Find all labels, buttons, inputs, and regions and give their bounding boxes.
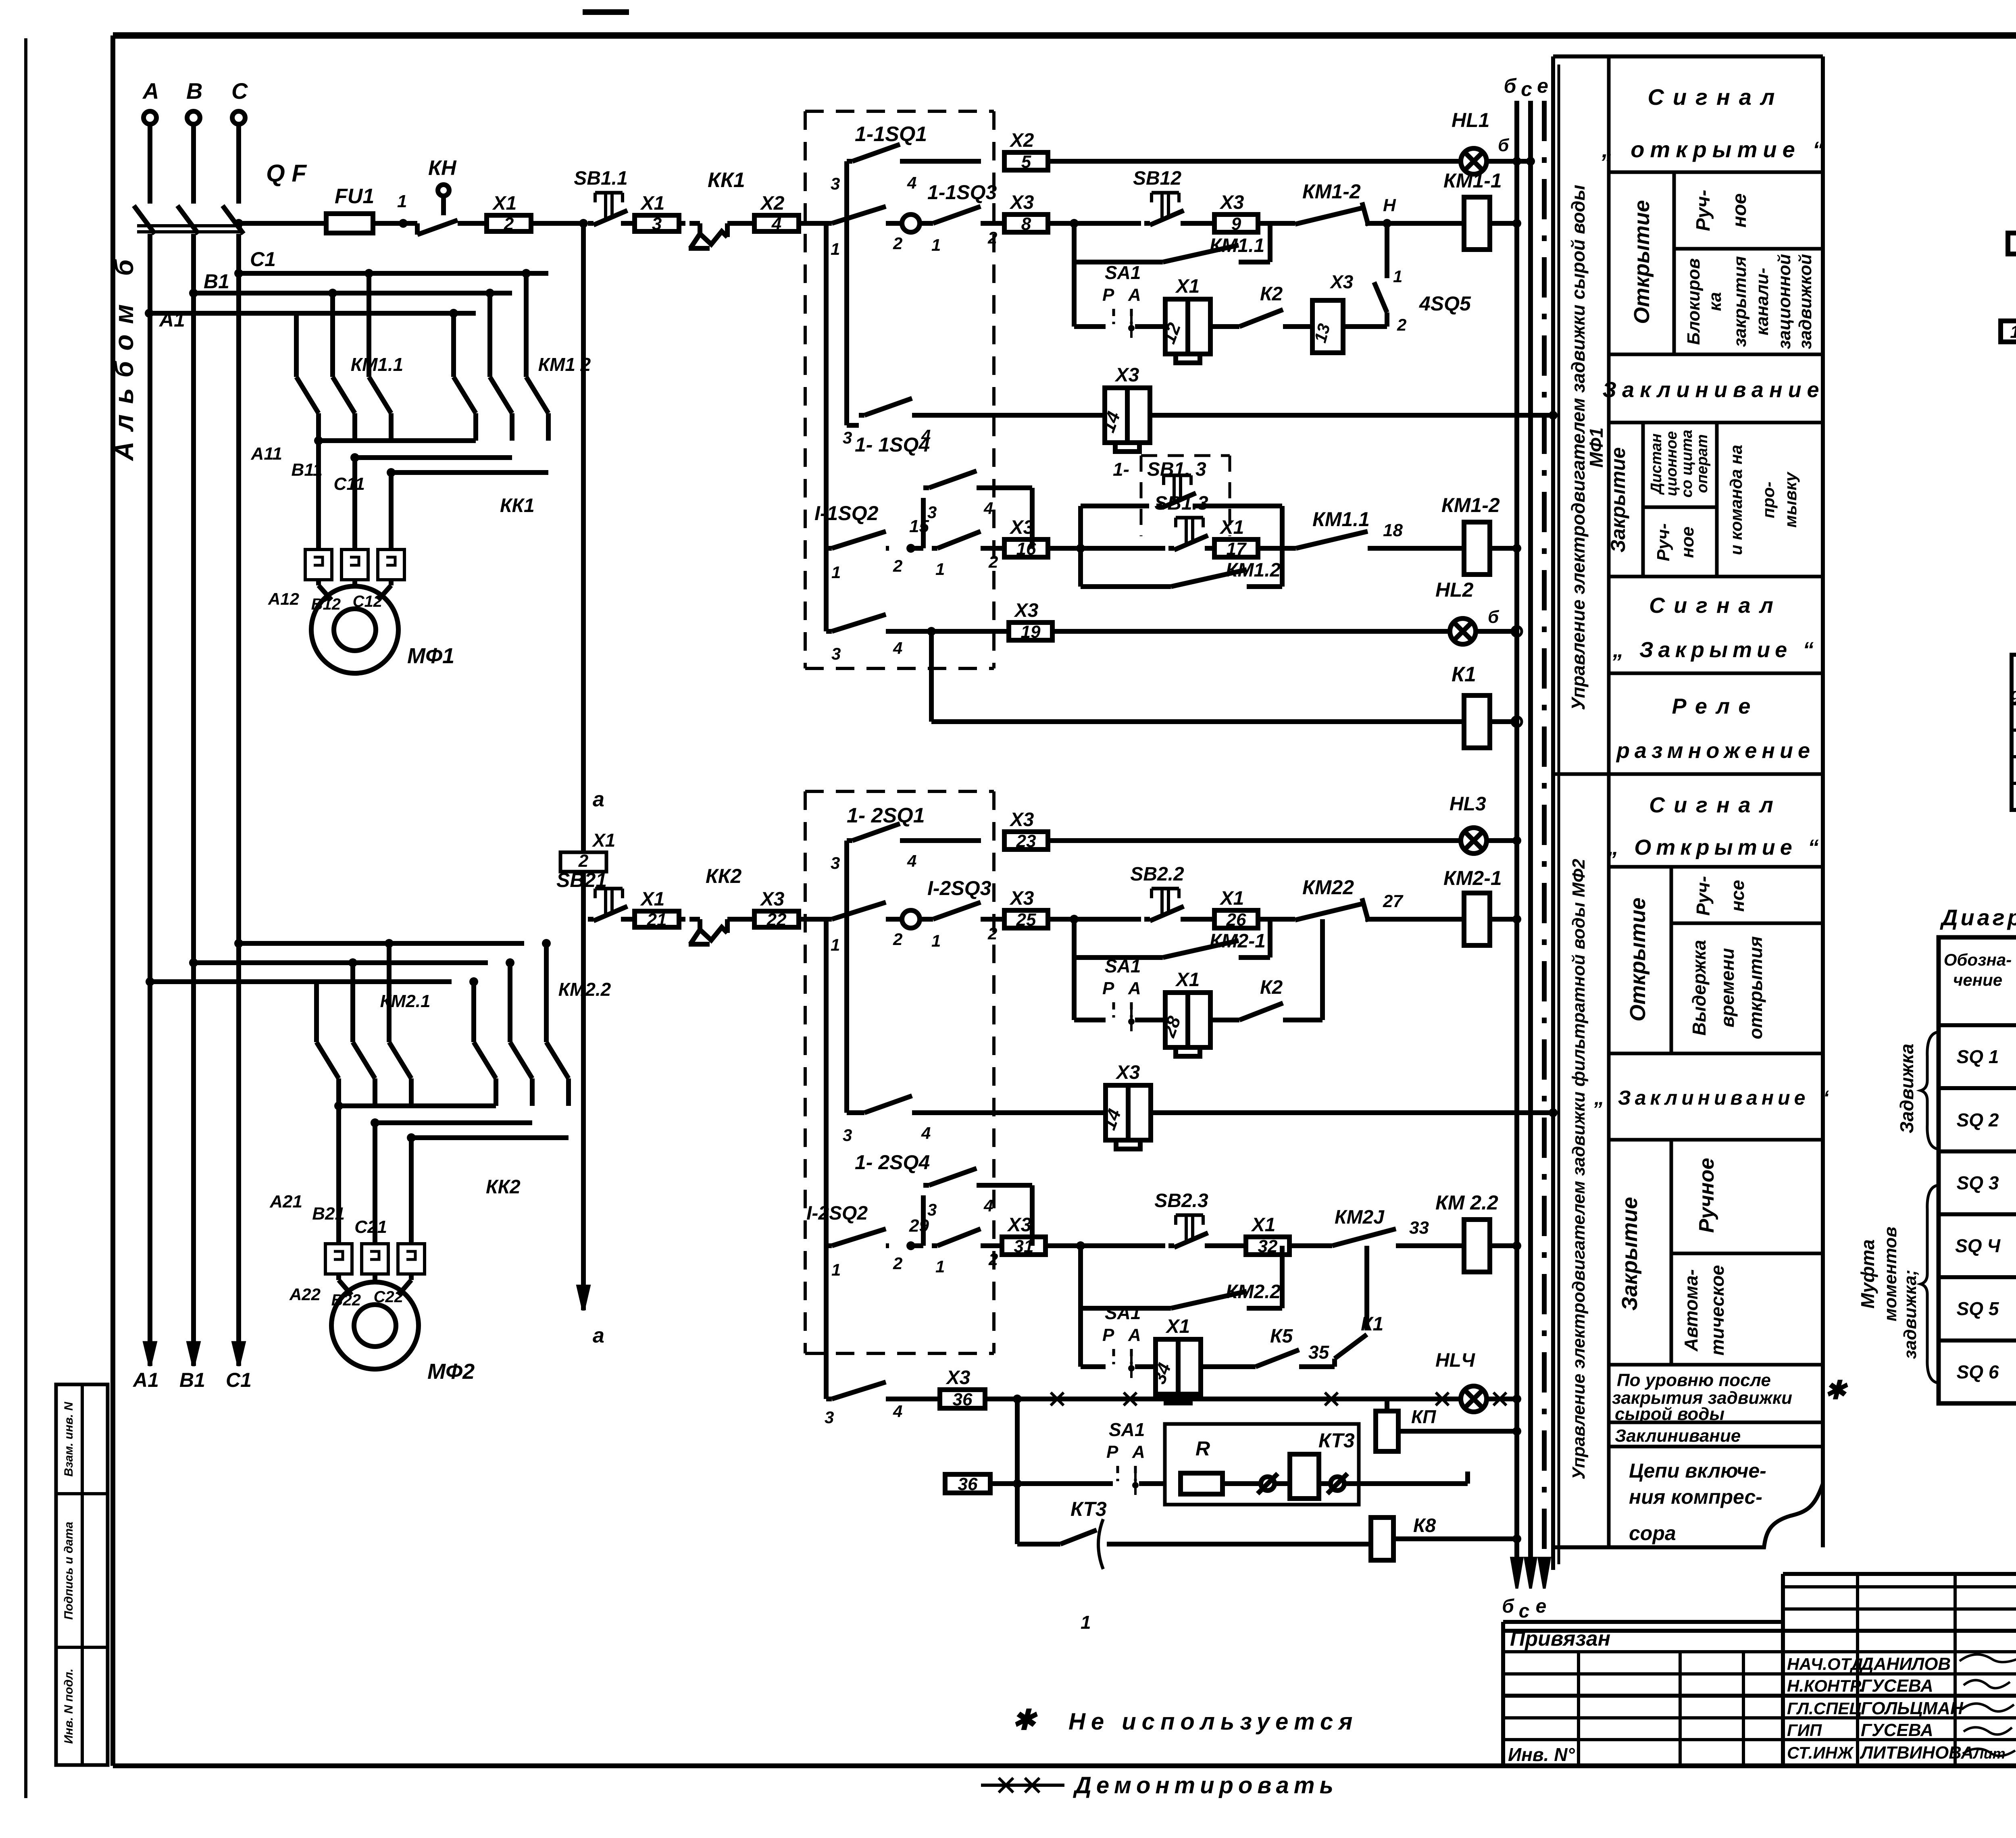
svg-text:1: 1 [831,1260,841,1279]
svg-text:SB1.3: SB1.3 [1154,493,1208,514]
node under X3 36 [1013,1395,1022,1403]
output box X1 28 [1165,993,1210,1047]
svg-text:КМ2J: КМ2J [1335,1207,1385,1228]
terminal X3 36 [940,1390,985,1408]
svg-text:КМ1.1: КМ1.1 [1312,508,1370,531]
svg-text:Сигнал: Сигнал [1649,593,1782,618]
wire 94-КН-95 [2008,233,2016,254]
svg-text:Х3: Х3 [1009,809,1034,831]
pushbutton SB1.3 main [1081,546,1165,551]
bypass contact KM1.1 [1072,223,1077,262]
svg-text:б: б [1498,135,1510,155]
terminal X1 21 [635,911,679,927]
svg-text:А22: А22 [289,1285,321,1304]
svg-text:2: 2 [893,556,902,575]
svg-text:К5: К5 [1270,1326,1293,1347]
svg-text:15: 15 [909,516,929,536]
svg-text:4: 4 [983,1196,993,1215]
pushbutton SB2.3 [1168,1243,1174,1248]
svg-text:и команда на: и команда на [1727,445,1745,555]
svg-text:1: 1 [931,235,941,254]
function table outer border [1551,56,1555,1570]
rect enclosure R KT3 [1165,1424,1359,1505]
svg-text:Руч-: Руч- [1654,523,1673,561]
svg-text:2: 2 [988,1250,998,1269]
svg-text:КМ2-1: КМ2-1 [1210,930,1266,952]
svg-text:3: 3 [927,1200,937,1219]
svg-text:3: 3 [927,503,937,522]
svg-text:б: б [1488,607,1500,627]
row Открытие/Ручное/Выдержка МФ2 [1609,1052,1823,1055]
svg-text:Сигнал: Сигнал [1647,84,1783,110]
svg-text:„ открытие “: „ открытие “ [1602,137,1830,162]
svg-text:Открытие: Открытие [1630,200,1654,324]
pushbutton SB1.2 [1144,221,1150,226]
svg-text:В1: В1 [204,270,229,293]
svg-text:про-: про- [1759,482,1778,518]
motor МФ1 [319,585,331,600]
svg-text:б: б [1504,75,1517,97]
svg-text:HLЧ: HLЧ [1435,1350,1475,1371]
terminal X1 3 [635,215,679,231]
svg-text:задвижкой: задвижкой [1795,254,1815,349]
output box X1 34 [1156,1339,1201,1394]
svg-text:Х1: Х1 [640,193,665,214]
svg-text:Реле: Реле [1672,694,1760,718]
row Сигнал Открытие МФ2 [1609,865,1823,869]
svg-text:Открытие: Открытие [1626,897,1650,1022]
svg-text:Дистан: Дистан [1648,433,1665,495]
timed contact KT3 bottom [1015,1484,1020,1544]
bypass contact KM2-1 [1072,919,1077,958]
svg-text:2: 2 [893,1254,902,1273]
svg-text:Руч-: Руч- [1693,190,1714,231]
svg-text:P: P [1102,978,1114,998]
svg-text:A: A [1128,285,1141,305]
terminal X3 8 [1004,214,1048,232]
svg-text:4: 4 [907,173,916,192]
svg-text:1: 1 [935,1257,945,1276]
svg-text:3: 3 [831,644,841,663]
limit switch 1-2SQ1 contact 3-4 branch [844,841,849,915]
bypass contact KM2.2 [1078,1246,1083,1308]
svg-text:Взам. инв. N: Взам. инв. N [62,1401,75,1477]
svg-text:НАЧ.ОТД: НАЧ.ОТД [1787,1655,1863,1674]
svg-text:Х1: Х1 [1165,1316,1190,1337]
svg-text:29: 29 [909,1216,929,1236]
svg-text:36: 36 [958,1474,978,1494]
slash circle 1 [1261,1477,1275,1490]
svg-text:A: A [1128,978,1141,998]
left margin stamp [56,1384,108,1765]
svg-text:КТ3: КТ3 [1318,1429,1355,1452]
svg-text:31: 31 [1014,1236,1034,1256]
svg-text:Альбом б: Альбом б [109,249,139,461]
svg-text:Х3: Х3 [946,1367,971,1388]
svg-text:SQ 1: SQ 1 [1957,1046,1999,1067]
node circle after SQ1 [889,221,902,226]
row Заклинивание МФ1 [1609,421,1823,425]
svg-text:✱: ✱ [1012,1704,1038,1736]
output box X1 12 [1165,299,1210,354]
svg-text:ка: ка [1705,292,1725,311]
rung HL2 [824,548,829,631]
svg-text:Выдержка: Выдержка [1689,940,1710,1035]
terminal X1 26 [1214,910,1258,928]
limit switch 1-1SQ1 contact 1-2 [824,223,829,234]
svg-text:Автома-: Автома- [1681,1269,1702,1352]
limit switch 1-2SQ4 bridge [911,1243,923,1248]
svg-text:Муфта: Муфта [1857,1239,1878,1309]
svg-text:МФ1: МФ1 [407,644,454,668]
svg-text:2: 2 [988,552,998,571]
svg-text:3: 3 [843,1126,852,1145]
terminal X2 4 [754,215,799,231]
junction [1070,219,1079,228]
svg-text:ния компрес-: ния компрес- [1629,1486,1762,1508]
svg-text:35: 35 [1308,1342,1330,1363]
limit switch 1-1SQ1 contact 3-4 branch up [844,161,849,219]
svg-text:С21: С21 [354,1217,387,1237]
svg-text:С11: С11 [334,474,365,494]
node feed down to МФ2 [579,219,588,228]
svg-text:е: е [1537,75,1548,97]
svg-text:3: 3 [831,853,840,872]
limit switch 4SQ5 vertical [1343,324,1387,329]
svg-text:а: а [593,1324,604,1347]
svg-text:SB12: SB12 [1133,168,1181,189]
terminal X3 14 second [1106,1085,1151,1140]
svg-text:канали-: канали- [1752,268,1772,335]
closing rung МФ1 [824,234,829,548]
note Демонтировать [981,1784,1064,1787]
svg-text:Х3: Х3 [1009,192,1034,213]
terminal X1 2 [487,215,531,231]
svg-text:КМ1-2: КМ1-2 [1441,494,1500,516]
limit switch 1-2SQ1 contact 1-2 [824,919,829,930]
svg-text:тическое: тическое [1707,1265,1728,1356]
svg-text:Х1: Х1 [1219,517,1244,538]
svg-text:Х1: Х1 [1219,888,1244,909]
svg-text:1- 2SQ4: 1- 2SQ4 [855,1151,930,1174]
svg-text:9: 9 [1231,214,1241,234]
svg-text:КМ 2.2: КМ 2.2 [1435,1191,1498,1214]
svg-text:Х3: Х3 [1007,1214,1032,1236]
svg-text:Инв. N подл.: Инв. N подл. [62,1669,75,1744]
svg-text:Не используется: Не используется [1068,1709,1358,1735]
svg-text:В1: В1 [179,1369,205,1391]
svg-text:Руч-: Руч- [1693,876,1714,916]
svg-text:фильтров: фильтров [2011,685,2016,703]
relay K8 [1371,1517,1393,1560]
wire 104-3SQ6-107 [2001,321,2016,342]
svg-text:Х1: Х1 [591,830,615,851]
node circle after 2SQ1 [889,917,902,922]
svg-text:1: 1 [831,935,840,954]
svg-text:36: 36 [953,1390,973,1409]
svg-text:3: 3 [843,428,852,447]
svg-text:4SQ5: 4SQ5 [1419,292,1471,315]
svg-text:КМ1.1: КМ1.1 [351,354,404,375]
svg-text:К8: К8 [1413,1515,1436,1536]
svg-text:4: 4 [893,639,902,658]
svg-text:21: 21 [647,910,667,930]
svg-text:А21: А21 [269,1192,302,1211]
svg-text:Х1: Х1 [1175,969,1200,991]
svg-text:Демонтировать: Демонтировать [1073,1772,1338,1798]
svg-text:2: 2 [1397,315,1406,334]
svg-text:HL2: HL2 [1435,579,1474,601]
bus line б [1514,101,1519,1564]
svg-text:КМ1-1: КМ1-1 [1443,169,1502,192]
svg-text:23: 23 [1016,831,1036,851]
svg-text:1- 2SQ1: 1- 2SQ1 [847,804,925,827]
svg-text:SQ 3: SQ 3 [1957,1172,1999,1193]
svg-text:Ручное: Ручное [1695,1158,1718,1233]
svg-text:Х3: Х3 [1115,1062,1140,1083]
svg-text:е: е [1536,1596,1547,1617]
svg-text:Х3: Х3 [1329,271,1354,292]
svg-text:Х1: Х1 [1175,276,1200,297]
svg-text:Х3: Х3 [1009,888,1034,909]
svg-text:Н: Н [1383,196,1396,215]
svg-text:Х2: Х2 [760,193,785,214]
svg-text:А12: А12 [268,589,299,608]
svg-text:1-1SQ3: 1-1SQ3 [927,181,997,204]
svg-text:Q F: Q F [266,160,307,187]
svg-text:ГЛ.СПЕЦ: ГЛ.СПЕЦ [1787,1699,1862,1718]
svg-text:I-2SQ2: I-2SQ2 [806,1203,868,1224]
wires down to KK2 [336,1106,341,1244]
svg-text:P: P [1106,1442,1118,1462]
terminal X3 9 [1214,214,1258,232]
svg-text:Управление электродвигателем з: Управление электродвигателем задвижки фи… [1569,859,1589,1480]
svg-text:2: 2 [578,851,589,871]
svg-text:2: 2 [504,214,514,234]
node 1 [399,219,408,228]
signature scribbles [1960,1651,2016,1662]
row Закрытие/Ручное/Автоматическое МФ2 [1609,1363,1823,1367]
svg-text:4: 4 [771,214,781,234]
svg-text:17: 17 [1227,539,1247,559]
svg-text:26: 26 [1226,910,1246,930]
title block main [1501,1622,1505,1766]
svg-text:с: с [1519,1601,1530,1622]
svg-text:1- 1SQ4: 1- 1SQ4 [855,433,930,456]
svg-text:„ Открытие “: „ Открытие “ [1607,835,1824,860]
svg-text:КН: КН [428,156,457,180]
rung HL4 [824,1246,829,1399]
svg-text:1: 1 [1081,1612,1091,1633]
svg-text:18: 18 [1383,520,1403,540]
limit switch 1-1SQ2 contact [826,546,832,551]
svg-text:104: 104 [2010,322,2016,342]
svg-text:I-1SQ2: I-1SQ2 [814,502,879,525]
pushbutton SB2.2 [1144,917,1150,922]
svg-text:б: б [1502,1596,1514,1617]
svg-text:4: 4 [921,1124,931,1143]
svg-text:а: а [593,788,604,811]
selector SA1 PA row МФ1 [1072,262,1077,327]
svg-text:времени: времени [1717,948,1738,1028]
rung Заклинивание МФ1 X3 14 [844,173,849,425]
svg-text:Х1: Х1 [492,193,517,214]
svg-text:ное: ное [1729,193,1750,227]
svg-text:размножение: размножение [1616,739,1815,763]
terminal X3 22 [754,911,799,927]
svg-text:Х3: Х3 [1219,192,1244,213]
wire taps to МФ2 contactors [234,939,243,948]
svg-text:моментов: моментов [1881,1226,1900,1321]
svg-text:Х3: Х3 [1114,364,1139,386]
terminal X1 32 [1246,1237,1289,1255]
svg-text:P: P [1102,1325,1114,1345]
motor МФ2 [339,1280,352,1295]
svg-text:К1: К1 [1361,1313,1383,1335]
svg-text:1: 1 [831,239,840,258]
svg-text:5: 5 [1021,152,1031,172]
svg-text:„ Заклинивание “: „ Заклинивание “ [1594,1087,1833,1109]
terminal X3 31 [1002,1237,1045,1255]
svg-text:С1: С1 [226,1369,252,1391]
svg-text:3: 3 [831,174,840,193]
terminal X2 5 [1004,152,1048,170]
svg-text:R: R [1195,1437,1210,1460]
svg-text:с: с [1521,78,1532,100]
function table label column МФ2 [1553,772,1609,776]
contact 1-2 on closing rung [932,546,937,551]
svg-text:Закрытие: Закрытие [1607,447,1629,552]
svg-text:4: 4 [983,499,993,518]
terminal X3 16 [1004,539,1048,557]
svg-text:ное: ное [1678,527,1697,558]
svg-text:✱: ✱ [1824,1376,1848,1405]
svg-text:ГОЛЬЦМАН: ГОЛЬЦМАН [1861,1699,1964,1718]
bus line с [1528,101,1533,1564]
dashed box SB1.3 upper [1141,454,1230,457]
title block rows [1783,1585,2016,1588]
circuit breaker QF [134,206,155,234]
svg-text:2: 2 [987,924,997,943]
svg-text:КМ1.1: КМ1.1 [1210,235,1264,256]
svg-text:8: 8 [1021,214,1031,234]
svg-text:Х3: Х3 [760,889,785,910]
relay КП [1385,1399,1389,1411]
selector SA1 K5 row [1078,1308,1083,1367]
row Открытие/Ручное/Блокировка МФ1 [1609,353,1823,356]
wire main feed from QF to control [234,219,243,228]
svg-text:4: 4 [907,851,916,870]
svg-text:ДАНИЛОВ: ДАНИЛОВ [1859,1654,1951,1674]
svg-text:Заклинивание: Заклинивание [1615,1426,1741,1446]
svg-text:SA1: SA1 [1109,1419,1145,1440]
svg-text:К2: К2 [1260,977,1283,998]
svg-text:Заклинивание: Заклинивание [1602,378,1824,402]
svg-text:3: 3 [652,214,662,234]
svg-text:Х2: Х2 [1009,130,1034,151]
svg-text:3: 3 [825,1408,834,1427]
row Сигнал открытие МФ1 [1609,55,1823,58]
selector SA1 PA row МФ2 [1072,958,1077,1020]
svg-text:16: 16 [1016,539,1036,559]
crossover wires bank2 to bank1 МФ2 [339,1103,496,1108]
svg-text:HL3: HL3 [1450,793,1486,815]
terminal X3 23 [1004,832,1048,849]
svg-text:A: A [1128,1325,1141,1345]
svg-text:А: А [142,78,159,104]
svg-text:1: 1 [831,563,841,582]
svg-text:SB2.2: SB2.2 [1130,864,1184,885]
svg-text:В: В [186,78,202,104]
svg-text:SA1: SA1 [1105,955,1141,976]
svg-text:Сигнал: Сигнал [1649,793,1782,817]
svg-text:1: 1 [935,560,945,579]
svg-text:SA1: SA1 [1105,262,1141,283]
limit switch 1-1SQ4 bridge [911,546,923,551]
svg-text:SQ Ч: SQ Ч [1955,1235,2001,1256]
dashed enclosure 1-2SQ box [805,790,994,793]
svg-text:КМ1-2: КМ1-2 [1302,180,1361,203]
wire tap С1 [234,269,243,278]
svg-text:Задвижка: Задвижка [1896,1044,1917,1134]
svg-text:Х1: Х1 [640,889,665,910]
svg-text:нсе: нсе [1727,880,1748,912]
svg-text:Х3: Х3 [1014,600,1039,621]
svg-text:закрытия: закрытия [1730,256,1750,347]
svg-text:мывку: мывку [1781,471,1800,528]
dashed enclosure 1-1SQ box [805,110,994,113]
bus line е (dashed) [1542,101,1547,1564]
svg-text:задвижка;: задвижка; [1900,1270,1920,1359]
svg-text:ционное: ционное [1663,431,1680,496]
svg-text:1: 1 [1393,267,1402,286]
svg-text:С1: С1 [250,248,276,271]
svg-text:P: P [1102,285,1114,305]
svg-text:A: A [1132,1442,1145,1462]
svg-text:КК1: КК1 [708,169,745,192]
svg-text:1: 1 [397,192,407,211]
title block verticals [1577,1652,1580,1766]
svg-text:22: 22 [766,910,787,930]
svg-text:со щита: со щита [1679,430,1695,498]
rung K1 coil [929,631,934,722]
svg-text:С: С [231,78,248,104]
svg-text:КМ2.2: КМ2.2 [1226,1281,1281,1303]
svg-text:К2: К2 [1260,283,1283,305]
svg-text:чение: чение [1953,970,2002,989]
svg-text:КК2: КК2 [486,1176,521,1198]
svg-text:ГУСЕВА: ГУСЕВА [1861,1720,1933,1740]
svg-text:КК1: КК1 [500,495,535,516]
svg-text:„ Закрытие “: „ Закрытие “ [1612,638,1818,662]
svg-text:ГУСЕВА: ГУСЕВА [1861,1676,1933,1696]
svg-text:HL1: HL1 [1452,109,1489,131]
crossover wires bank2 to bank1 [319,438,476,443]
svg-text:КМ22: КМ22 [1302,876,1354,899]
svg-text:Привязан: Привязан [1510,1627,1610,1651]
svg-text:32: 32 [1258,1236,1278,1256]
svg-text:Закрытие: Закрытие [1618,1197,1642,1311]
svg-text:К1: К1 [1452,663,1476,686]
svg-text:Н.КОНТР.: Н.КОНТР. [1787,1676,1864,1695]
svg-text:Блокиров: Блокиров [1684,258,1704,345]
svg-text:Подпись и дата: Подпись и дата [62,1522,75,1619]
svg-text:МФ2: МФ2 [427,1359,475,1384]
svg-text:Диаграмма работы микропереклю: Диаграмма работы микропереключателей [1940,905,2016,930]
svg-text:МФ1: МФ1 [1586,427,1607,468]
svg-text:27: 27 [1383,891,1404,911]
svg-text:SA1: SA1 [1105,1302,1141,1323]
